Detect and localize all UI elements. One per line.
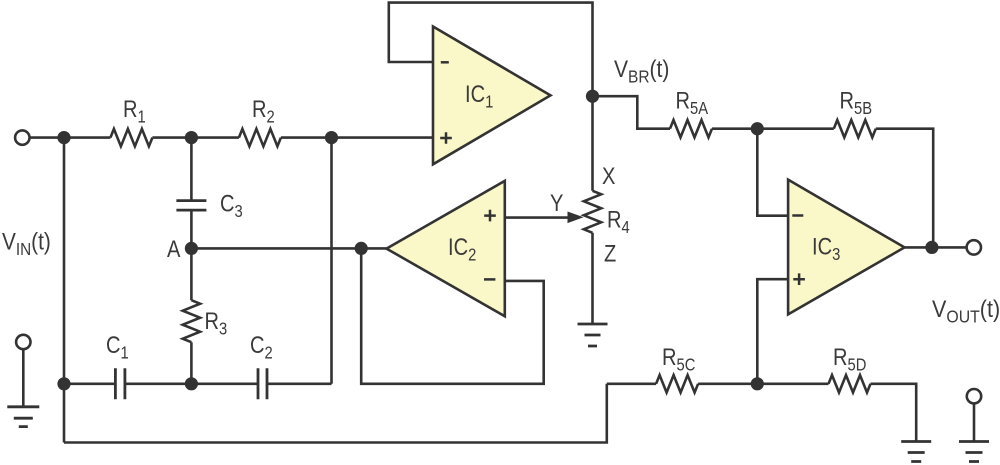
resistor R5B [834, 120, 876, 137]
svg-text:Y: Y [550, 189, 563, 216]
capacitor C1 [115, 368, 125, 399]
wire C3 vertical x=191.4 [190, 138, 193, 249]
resistor R5A [670, 120, 712, 137]
wire IC3 plus input [757, 279, 788, 384]
wire bottom rail y=442.5 [64, 384, 607, 443]
IC1 minus sign [441, 61, 449, 64]
node dot C1/C2/R3 [185, 377, 198, 390]
ground terminal right: bars [959, 442, 989, 462]
resistor R5C [656, 375, 698, 392]
svg-text:R5D: R5D [833, 343, 866, 375]
node dot R5C/R5D/IC3+ [751, 377, 764, 390]
output terminal circle [967, 240, 981, 254]
wire left vertical x=64 [63, 138, 66, 443]
IC3 plus sign [793, 273, 805, 285]
wire IC1 feedback loop [389, 3, 593, 97]
resistor R2 [239, 129, 281, 146]
svg-text:C3: C3 [220, 190, 243, 222]
node dot IC3 output [925, 241, 938, 254]
svg-text:R1: R1 [123, 95, 146, 127]
node dot R1/R2/C3 [185, 131, 198, 144]
capacitor C2 [258, 368, 267, 399]
IC1 plus sign [440, 132, 452, 144]
node dot IC2 apex [355, 242, 368, 255]
svg-text:VOUT(t): VOUT(t) [932, 295, 1000, 327]
wire IC3 minus input [757, 129, 788, 216]
wire IC3 output [905, 246, 967, 249]
svg-text:R3: R3 [205, 307, 228, 339]
node dot A [185, 242, 198, 255]
wire R5C row from bottom rail [607, 382, 656, 385]
IC2 plus sign [484, 210, 496, 222]
op-amp IC3 triangle [788, 180, 904, 315]
resistor R3 [183, 248, 200, 383]
svg-text:C2: C2 [250, 331, 273, 363]
svg-text:VBR(t): VBR(t) [614, 54, 669, 86]
node dot IC1 output VBR [586, 90, 599, 103]
ground terminal left: stem [22, 350, 25, 407]
IC2 minus sign [484, 278, 495, 281]
resistor R4 [584, 191, 601, 233]
wire IC1 output node to R4 [591, 96, 594, 191]
op-amp IC2 triangle [387, 181, 505, 316]
wire V_BR step to R5A row [593, 96, 671, 129]
wire R5D to ground [871, 384, 917, 442]
ground terminal left: circle [16, 335, 30, 349]
resistor R1 [110, 129, 152, 146]
svg-text:VIN(t): VIN(t) [2, 227, 51, 259]
wire IC2 feedback loop [361, 248, 544, 383]
wire R4 to ground [591, 233, 594, 324]
node dot R2/IC1+ [325, 131, 338, 144]
wire R5A to R5B [712, 127, 834, 130]
svg-text:R2: R2 [252, 95, 275, 127]
IC3 minus sign [792, 214, 803, 217]
svg-text:X: X [602, 162, 615, 189]
node dot input junction [57, 131, 70, 144]
node dot R5A/R5B/IC3- [751, 122, 764, 135]
capacitor C3 [176, 201, 206, 211]
wire IC2 plus output to R4 wiper [505, 216, 569, 219]
svg-text:R5C: R5C [662, 343, 695, 375]
ground below R5D [901, 442, 931, 462]
node dot C1 left [57, 377, 70, 390]
svg-text:R5A: R5A [676, 86, 709, 118]
resistor R5D [829, 375, 871, 392]
input terminal circle [15, 130, 29, 144]
svg-text:Z: Z [604, 240, 616, 267]
ground below R4 [578, 324, 608, 346]
wire R5B down to output node [876, 129, 933, 248]
svg-text:C1: C1 [106, 331, 129, 363]
wire vertical x=331.5 C2 to top rail [330, 138, 333, 384]
ground terminal left: bars [7, 407, 39, 427]
wire C-row y=383.8 [64, 382, 332, 385]
op-amp IC1 triangle [433, 27, 551, 165]
wire R5C to R5D [698, 382, 828, 385]
wire node-A row y=248.4 [191, 247, 386, 250]
ground terminal right: circle [967, 389, 981, 403]
arrow head at R4 wiper [568, 212, 584, 224]
ground terminal right: stem [973, 403, 976, 441]
svg-text:A: A [167, 235, 180, 262]
wire main input rail y=137.6 [29, 136, 433, 139]
svg-text:R5B: R5B [840, 86, 873, 118]
svg-text:R4: R4 [607, 206, 630, 238]
